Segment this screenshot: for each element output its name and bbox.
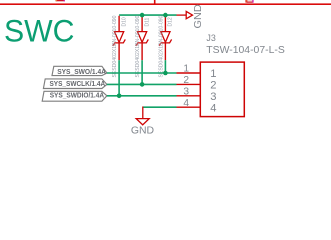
pin 1 [177, 72, 201, 74]
svg-text:GND: GND [131, 126, 154, 137]
junction dot rail-D12 [163, 13, 168, 18]
wire SYS_SWO to pin 1 [107, 72, 177, 74]
svg-text:SWC: SWC [4, 12, 75, 48]
svg-text:4: 4 [210, 102, 216, 114]
svg-text:3: 3 [183, 86, 189, 97]
wire below D10 [118, 60, 120, 96]
frame column tick [154, 0, 156, 5]
svg-text:2: 2 [183, 75, 189, 86]
diode D12 [159, 15, 174, 77]
junction dot SWCLK-D11 [140, 82, 145, 87]
svg-text:2: 2 [210, 80, 216, 92]
pin 4 [177, 106, 201, 108]
svg-text:SYS_SWDIO/1.4A: SYS_SWDIO/1.4A [50, 90, 105, 99]
diode D11 [135, 15, 150, 84]
svg-text:SESD0402X1BN-0010-090: SESD0402X1BN-0010-090 [159, 15, 165, 77]
wire SYS_SWCLK to pin 2 [107, 83, 177, 85]
net flag SYS_SWCLK [43, 79, 107, 89]
supply GND (top right, rotated) [177, 11, 193, 18]
svg-text:SYS_SWO/1.4A: SYS_SWO/1.4A [57, 67, 106, 76]
connector J3 [177, 33, 286, 117]
wire SYS_SWDIO to pin 3 [107, 95, 177, 97]
svg-text:D11: D11 [144, 17, 150, 26]
pin 2 [177, 83, 201, 85]
svg-text:SESD0402X1BN-0010-090: SESD0402X1BN-0010-090 [112, 15, 118, 77]
wire: top GND rail [119, 14, 176, 16]
clipped module symbol above border (left) [55, 0, 65, 1]
svg-text:D12: D12 [168, 17, 174, 26]
svg-text:SYS_SWCLK/1.4A: SYS_SWCLK/1.4A [50, 79, 106, 88]
diode D10 [112, 15, 127, 96]
supply GND (bottom) [136, 107, 149, 125]
net flag SYS_SWDIO [42, 90, 107, 101]
svg-text:3: 3 [210, 91, 216, 103]
svg-text:4: 4 [183, 98, 189, 109]
wire below D11 [141, 60, 143, 84]
svg-text:GND: GND [193, 4, 204, 28]
svg-text:1: 1 [183, 64, 189, 75]
junction dot rail-D11 [140, 13, 145, 18]
J3 body [200, 62, 244, 117]
svg-text:SESD0402X1BN-0010-090: SESD0402X1BN-0010-090 [135, 15, 141, 77]
junction dot SWO-D12 [163, 71, 168, 76]
svg-text:1: 1 [210, 68, 216, 80]
svg-text:J3: J3 [206, 33, 215, 43]
frame border top line [0, 3, 331, 5]
svg-text:TSW-104-07-L-S: TSW-104-07-L-S [206, 45, 285, 56]
junction dot SWDIO-D10 [117, 94, 122, 99]
net flag SYS_SWO [52, 66, 107, 76]
svg-text:D10: D10 [121, 17, 127, 26]
pin 3 [177, 95, 201, 97]
wire below D12 [164, 60, 166, 73]
wire GND to pin 4 [143, 106, 177, 108]
clipped module symbol above border [245, 0, 253, 3]
